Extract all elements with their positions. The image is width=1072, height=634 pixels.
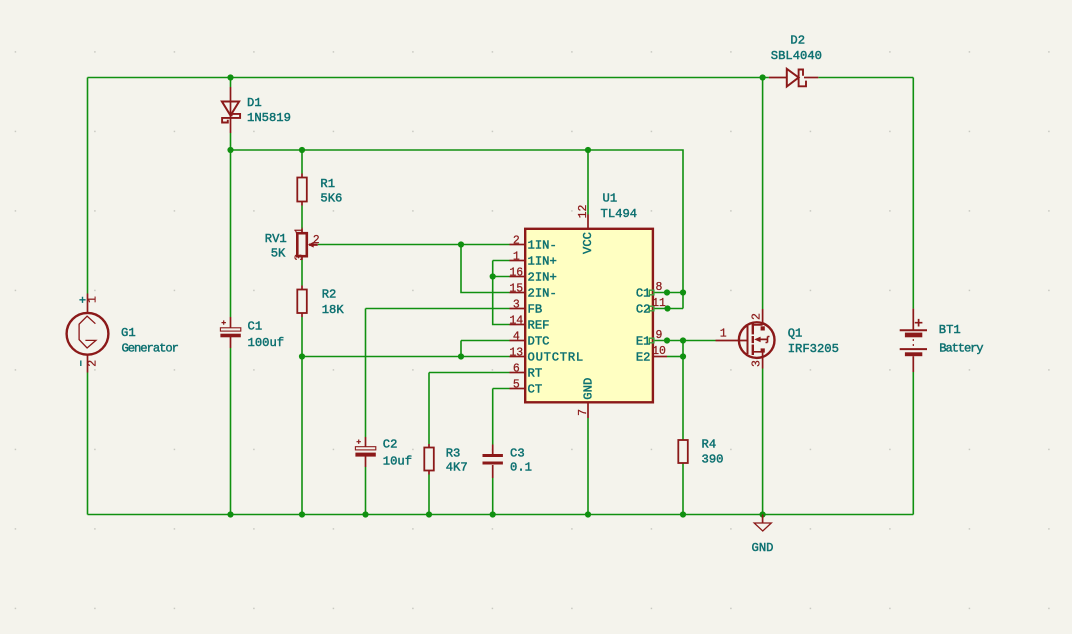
wire C1out row bbox=[653, 292, 683, 294]
battery BT1 bbox=[900, 309, 984, 372]
wire VCC drop from mid rail bbox=[587, 150, 589, 215]
wire mid rail to R1 bbox=[301, 150, 303, 174]
svg-text:Generator: Generator bbox=[122, 342, 179, 356]
U1 pin 15 2IN- bbox=[509, 283, 556, 301]
svg-text:1: 1 bbox=[294, 227, 307, 234]
resistor R2 bbox=[297, 286, 344, 318]
svg-text:5K6: 5K6 bbox=[320, 192, 342, 206]
diode D1 1N5819 bbox=[222, 87, 291, 133]
junction top rail D1 bbox=[227, 74, 233, 80]
svg-text:BT1: BT1 bbox=[939, 323, 961, 337]
svg-text:R3: R3 bbox=[446, 447, 461, 461]
potentiometer RV1 bbox=[265, 227, 320, 261]
svg-text:390: 390 bbox=[702, 453, 724, 467]
wire top rail right of D2 bbox=[818, 77, 913, 79]
junction R2/OUTCTRL bbox=[299, 353, 305, 359]
wire GND pin to bottom rail bbox=[587, 418, 589, 515]
svg-text:4: 4 bbox=[513, 331, 520, 344]
resistor R4 bbox=[678, 438, 723, 467]
svg-text:3: 3 bbox=[750, 360, 763, 367]
wire Q1 source to bottom rail bbox=[762, 369, 764, 515]
svg-text:3: 3 bbox=[513, 299, 520, 312]
wire C1 top bbox=[230, 150, 232, 317]
U1 pin 13 OUTCTRL bbox=[509, 347, 584, 365]
wire R2 bottom to rail bbox=[301, 317, 303, 515]
svg-text:RV1: RV1 bbox=[265, 232, 287, 246]
svg-text:REF: REF bbox=[528, 318, 550, 332]
svg-text:Battery: Battery bbox=[939, 342, 983, 356]
wire R1 to RV1 bbox=[301, 206, 303, 230]
svg-text:2IN+: 2IN+ bbox=[528, 270, 557, 284]
svg-text:18K: 18K bbox=[322, 303, 345, 317]
wire R4 bottom to rail bbox=[682, 464, 684, 515]
U1 pin 12 VCC bbox=[577, 205, 595, 254]
capacitor C3 0.1 bbox=[483, 445, 532, 479]
svg-text:R4: R4 bbox=[702, 438, 717, 452]
svg-text:DTC: DTC bbox=[528, 334, 550, 348]
svg-text:D2: D2 bbox=[790, 34, 805, 48]
svg-text:14: 14 bbox=[509, 315, 523, 328]
wire 2IN+ stub bbox=[493, 276, 510, 278]
junction rail R4 bbox=[680, 511, 686, 517]
svg-text:GND: GND bbox=[582, 378, 596, 400]
wire DTC to OUTCTRL vertical bbox=[460, 341, 462, 357]
svg-text:RT: RT bbox=[528, 366, 543, 380]
U1 pin 9 E1 bbox=[636, 329, 663, 348]
U1 pin 8 C1 bbox=[636, 281, 663, 300]
svg-text:G1: G1 bbox=[121, 326, 136, 340]
junction rail GND pin bbox=[585, 511, 591, 517]
svg-text:R1: R1 bbox=[320, 177, 335, 191]
ground GND bbox=[752, 515, 774, 556]
svg-text:C2: C2 bbox=[636, 302, 651, 316]
wire OUTCTRL row bbox=[302, 356, 510, 358]
svg-text:1: 1 bbox=[87, 296, 100, 303]
junction top rail D2/Q1 bbox=[760, 74, 766, 80]
svg-text:11: 11 bbox=[652, 297, 666, 310]
capacitor C2 10uf bbox=[355, 437, 412, 469]
svg-text:7: 7 bbox=[577, 409, 590, 416]
wire CT to C3 vertical bbox=[492, 389, 494, 445]
wire C1 bottom to rail bbox=[230, 348, 232, 515]
junction E1 a bbox=[664, 337, 670, 343]
svg-text:4K7: 4K7 bbox=[446, 461, 468, 475]
wire FB row to C2 column bbox=[366, 308, 510, 310]
wire E1 row to gate bbox=[653, 340, 716, 342]
svg-text:16: 16 bbox=[509, 267, 523, 280]
svg-text:2: 2 bbox=[513, 235, 520, 248]
svg-text:C3: C3 bbox=[510, 447, 525, 461]
U1 pin 10 E2 bbox=[636, 345, 683, 364]
svg-text:13: 13 bbox=[509, 347, 523, 360]
wire right edge from BT1 to bottom rail bbox=[912, 372, 914, 515]
wire left edge from top rail to G1 bbox=[87, 78, 89, 294]
svg-text:R2: R2 bbox=[322, 288, 337, 302]
wire left edge from G1 to bottom rail bbox=[87, 373, 89, 515]
junction rail Q1 source bbox=[760, 511, 766, 517]
svg-text:1IN-: 1IN- bbox=[528, 238, 557, 252]
svg-text:D1: D1 bbox=[247, 96, 262, 110]
U1 pin 11 C2 bbox=[636, 297, 666, 316]
svg-text:FB: FB bbox=[528, 302, 543, 316]
svg-text:100uf: 100uf bbox=[248, 336, 285, 350]
junction 2IN+ tie bbox=[490, 273, 496, 279]
svg-text:SBL4040: SBL4040 bbox=[771, 49, 822, 63]
svg-text:IRF3205: IRF3205 bbox=[788, 342, 839, 356]
wire RV1 to R2 bbox=[301, 260, 303, 286]
svg-text:8: 8 bbox=[656, 281, 663, 294]
svg-text:2: 2 bbox=[87, 360, 100, 367]
resistor R3 bbox=[424, 444, 467, 475]
junction C1out a bbox=[664, 289, 670, 295]
U1 pin 16 2IN+ bbox=[509, 267, 556, 285]
svg-text:15: 15 bbox=[509, 283, 523, 296]
wire RT to R3 vertical bbox=[428, 373, 430, 445]
svg-text:TL494: TL494 bbox=[601, 207, 638, 221]
svg-text:E1: E1 bbox=[636, 334, 651, 348]
svg-text:0.1: 0.1 bbox=[510, 461, 532, 475]
svg-text:2IN-: 2IN- bbox=[528, 286, 557, 300]
wire DTC row bbox=[461, 340, 510, 342]
U1 pin 1 1IN+ bbox=[510, 251, 557, 269]
junction mid rail R1 bbox=[299, 147, 305, 153]
svg-text:C1: C1 bbox=[248, 320, 263, 334]
junction mid rail C1 bbox=[227, 147, 233, 153]
svg-text:2: 2 bbox=[750, 313, 763, 320]
junction C2out bbox=[664, 305, 670, 311]
generator G1 bbox=[67, 294, 179, 373]
svg-text:C2: C2 bbox=[383, 438, 398, 452]
wire E1-E2-R4 vertical bbox=[682, 341, 684, 441]
wire bottom rail bbox=[88, 514, 914, 516]
wire right edge from top rail to BT1 bbox=[912, 78, 914, 309]
svg-text:1IN+: 1IN+ bbox=[528, 254, 557, 268]
junction wiper node bbox=[458, 241, 464, 247]
U1 pin 7 GND bbox=[577, 378, 595, 418]
wire pins 1-16-14 tie vertical bbox=[493, 260, 510, 262]
wire RT row bbox=[429, 372, 510, 374]
svg-text:U1: U1 bbox=[603, 192, 618, 206]
U1 pin 14 REF bbox=[509, 315, 549, 333]
wire CT row bbox=[493, 388, 510, 390]
junction rail C2 bbox=[362, 511, 368, 517]
U1 pin 2 1IN- bbox=[510, 235, 557, 253]
wire mid rail y150 bbox=[231, 150, 684, 309]
svg-text:3: 3 bbox=[294, 254, 307, 261]
junction rail R3 bbox=[426, 511, 432, 517]
wire node A vertical to 2IN- row bbox=[461, 245, 510, 293]
wire RV1 wiper to pin 2 row bbox=[318, 244, 510, 246]
svg-text:VCC: VCC bbox=[581, 232, 595, 254]
junction rail C1 bbox=[227, 511, 233, 517]
svg-text:1: 1 bbox=[513, 251, 520, 264]
svg-text:5: 5 bbox=[513, 379, 520, 392]
U1 pin 3 FB bbox=[510, 299, 543, 317]
wire C2 bottom to rail bbox=[365, 467, 367, 515]
op-amp U1 TL494 bbox=[525, 192, 653, 403]
transistor Q1 IRF3205 bbox=[716, 309, 839, 369]
diode D2 SBL4040 bbox=[769, 34, 822, 87]
svg-text:GND: GND bbox=[752, 541, 774, 555]
junction E1 b bbox=[680, 337, 686, 343]
svg-text:9: 9 bbox=[656, 329, 663, 342]
wire C3 bottom to rail bbox=[492, 478, 494, 515]
junction mid rail VCC bbox=[585, 147, 591, 153]
svg-text:1N5819: 1N5819 bbox=[247, 111, 291, 125]
wire C2out row bbox=[653, 308, 683, 310]
junction DTC/OUTCTRL bbox=[458, 353, 464, 359]
wire top rail left of D2 bbox=[88, 77, 769, 79]
wire C2 column vertical bbox=[365, 309, 367, 438]
svg-text:10: 10 bbox=[652, 345, 666, 358]
svg-text:1: 1 bbox=[720, 328, 727, 341]
wire Q1 drain from top rail bbox=[762, 78, 764, 310]
svg-text:5K: 5K bbox=[271, 247, 286, 261]
U1 pin 5 CT bbox=[510, 379, 543, 397]
svg-text:6: 6 bbox=[513, 363, 520, 376]
wire D1 anode stub bbox=[230, 78, 232, 88]
svg-text:2: 2 bbox=[313, 234, 320, 247]
junction rail R2 bbox=[299, 511, 305, 517]
U1 pin 6 RT bbox=[510, 363, 543, 381]
wire D1 cathode to mid rail bbox=[230, 133, 232, 150]
wire REF tie bbox=[493, 261, 510, 325]
svg-text:10uf: 10uf bbox=[383, 455, 412, 469]
junction rail C3 bbox=[490, 511, 496, 517]
svg-text:Q1: Q1 bbox=[788, 327, 803, 341]
svg-text:OUTCTRL: OUTCTRL bbox=[528, 350, 584, 364]
junction C1out b bbox=[680, 289, 686, 295]
wire R3 bottom to rail bbox=[428, 475, 430, 515]
svg-text:C1: C1 bbox=[636, 286, 651, 300]
junction E2 bbox=[680, 353, 686, 359]
capacitor C1 100uf bbox=[220, 317, 284, 350]
U1 pin 4 DTC bbox=[510, 331, 550, 349]
resistor R1 bbox=[297, 174, 342, 206]
svg-text:CT: CT bbox=[528, 382, 543, 396]
svg-text:12: 12 bbox=[577, 205, 590, 219]
svg-text:E2: E2 bbox=[636, 350, 651, 364]
